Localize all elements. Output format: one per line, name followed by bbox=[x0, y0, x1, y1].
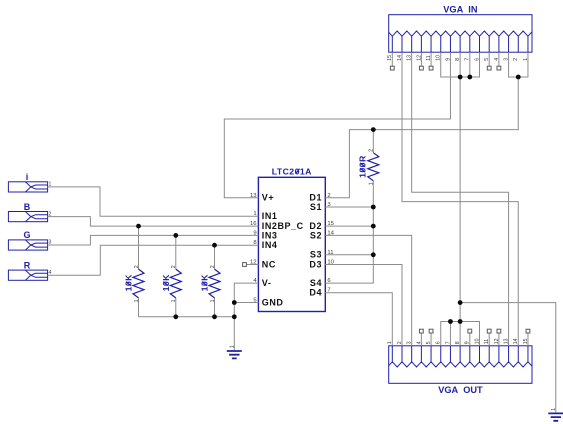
junction R3 top / IN4 line bbox=[212, 243, 217, 248]
VGA OUT pin 5 no-connect square bbox=[429, 329, 433, 333]
resistor R1 10K leads bbox=[138, 226, 140, 317]
svg-text:1: 1 bbox=[369, 182, 375, 185]
svg-text:1: 1 bbox=[171, 299, 177, 302]
svg-text:2: 2 bbox=[210, 265, 216, 268]
svg-text:D4: D4 bbox=[309, 288, 322, 298]
svg-text:IN3: IN3 bbox=[262, 230, 278, 240]
svg-text:R: R bbox=[24, 260, 31, 270]
VGA OUT pin 4 no-connect stub bbox=[420, 333, 422, 346]
svg-text:G: G bbox=[23, 230, 30, 240]
wire VGA OUT pin 8 to ground GND2 bbox=[460, 303, 556, 413]
connector G body bbox=[8, 240, 47, 250]
VGA OUT pin 4 no-connect square bbox=[419, 329, 423, 333]
IC U1 label slashed zero bbox=[296, 169, 300, 174]
wire resistor bottom bus bbox=[139, 316, 235, 318]
VGA OUT pin 9 no-connect square bbox=[468, 329, 472, 333]
svg-text:NC: NC bbox=[262, 259, 276, 269]
wire IC GND stub bbox=[234, 302, 258, 304]
wire VGA IN pin 13 to VGA OUT pin 13 bbox=[412, 52, 509, 346]
wire connector G to IC IN3 bbox=[48, 235, 259, 245]
op IC U1 LTC201A body bbox=[258, 177, 325, 311]
junction 100R bottom / S1 bbox=[371, 205, 376, 210]
wire VGA OUT pin 7 stub bbox=[449, 322, 451, 346]
ground symbol GND2 bbox=[548, 413, 563, 420]
junction S3 / chain bbox=[371, 252, 376, 257]
VGA IN pin 5 no-connect stub bbox=[488, 52, 490, 66]
junction 100R top / D1 line bbox=[371, 127, 376, 132]
VGA IN pin 4 no-connect square bbox=[497, 66, 501, 70]
wire VGA IN pin 14 to VGA OUT pin 14 bbox=[402, 52, 518, 346]
wire chain node S1-D2-S3-S4 bbox=[325, 207, 373, 283]
svg-text:S3: S3 bbox=[310, 250, 322, 260]
svg-text:V+: V+ bbox=[262, 193, 274, 203]
VGA OUT pin 9 no-connect stub bbox=[469, 333, 471, 346]
junction R3 bottom / bus bbox=[212, 314, 217, 319]
svg-text:B: B bbox=[24, 202, 31, 212]
wire VGA OUT ground bus pins 6-10 bbox=[441, 322, 480, 346]
resistor R1 10K body bbox=[133, 269, 144, 298]
wire IC V- to ground bbox=[234, 283, 258, 351]
resistor R4 100R body bbox=[368, 153, 379, 181]
svg-text:S4: S4 bbox=[310, 278, 322, 288]
wire IC D3 to VGA OUT pin 2 bbox=[325, 265, 402, 346]
junction VGA OUT pin 8 / out bus bbox=[458, 319, 463, 324]
wire VGA IN pin 8 to VGA OUT pin 8 bbox=[459, 52, 461, 346]
junction VGA IN pin 2 / bus bbox=[516, 75, 521, 80]
junction VGA OUT pin 7 / out bus bbox=[448, 319, 453, 324]
junction R2 top / IN3 line bbox=[173, 233, 178, 238]
svg-text:1: 1 bbox=[134, 299, 140, 302]
resistor R2 10K body bbox=[170, 269, 181, 298]
VGA IN pin 11 no-connect stub bbox=[430, 52, 432, 66]
connector B body bbox=[8, 212, 47, 222]
svg-text:IN4: IN4 bbox=[262, 240, 278, 250]
junction VGA IN pin 7 / ground bus bbox=[467, 75, 472, 80]
wire connector B to IC IN2BP_C bbox=[48, 217, 259, 227]
wire IC V+ to VGA IN pin 9 bbox=[224, 52, 450, 198]
wire IC S3 stub bbox=[325, 254, 373, 256]
R2 label slashed zero bbox=[163, 282, 168, 286]
R4 label slashed zeros bbox=[360, 168, 365, 172]
svg-text:S1: S1 bbox=[310, 202, 322, 212]
junction R2 bottom / bus bbox=[173, 314, 178, 319]
svg-text:100R: 100R bbox=[358, 155, 368, 178]
VGA IN pin 15 no-connect stub bbox=[391, 52, 393, 66]
svg-text:2: 2 bbox=[513, 58, 519, 61]
svg-text:1: 1 bbox=[230, 345, 236, 348]
svg-text:GND: GND bbox=[262, 297, 284, 307]
connector J2 VGA OUT body bbox=[389, 346, 532, 384]
resistor R3 10K leads bbox=[214, 245, 216, 317]
svg-text:2: 2 bbox=[171, 265, 177, 268]
svg-text:VGA OUT: VGA OUT bbox=[438, 385, 483, 395]
junction V- riser / GND stub bbox=[232, 300, 237, 305]
junction R1 top / IN2BP_C line bbox=[136, 224, 141, 229]
resistor R3 10K body bbox=[209, 269, 220, 298]
svg-text:1: 1 bbox=[551, 408, 557, 411]
svg-text:1: 1 bbox=[210, 299, 216, 302]
connector R body bbox=[8, 270, 47, 280]
VGA IN pin 11 no-connect square bbox=[429, 66, 433, 70]
svg-text:VGA IN: VGA IN bbox=[443, 5, 478, 15]
VGA OUT pin 15 no-connect square bbox=[526, 329, 530, 333]
svg-text:2: 2 bbox=[134, 265, 140, 268]
svg-text:10K: 10K bbox=[124, 274, 134, 292]
VGA OUT pin 11 no-connect square bbox=[487, 329, 491, 333]
VGA OUT pin 12 no-connect square bbox=[497, 329, 501, 333]
wire IC D2 stub bbox=[325, 225, 373, 227]
svg-text:S2: S2 bbox=[310, 230, 322, 240]
VGA IN pin 12 no-connect square bbox=[419, 66, 423, 70]
wire IC S2 to VGA OUT pin 3 bbox=[325, 235, 411, 345]
junction D2 / chain bbox=[371, 224, 376, 229]
R1 label slashed zero bbox=[126, 282, 131, 286]
wire IC S1 to 100R bottom bbox=[325, 206, 373, 208]
VGA IN pin 12 no-connect stub bbox=[420, 52, 422, 66]
svg-text:10K: 10K bbox=[161, 274, 171, 292]
ground symbol GND1 bbox=[227, 351, 242, 358]
wire VGA IN ground bus pins 10-6 bbox=[441, 52, 480, 77]
connector J1 VGA IN body bbox=[389, 15, 532, 53]
VGA OUT pin 11 no-connect stub bbox=[488, 333, 490, 346]
svg-text:2: 2 bbox=[369, 149, 375, 152]
connector i body bbox=[8, 182, 47, 192]
VGA IN pin 4 no-connect stub bbox=[498, 52, 500, 66]
wire IC D4 to VGA OUT pin 1 bbox=[325, 293, 392, 346]
resistor R2 10K leads bbox=[175, 235, 177, 316]
svg-text:IN1: IN1 bbox=[262, 211, 278, 221]
svg-text:i: i bbox=[26, 172, 29, 182]
wire connector i to IC IN1 bbox=[48, 187, 259, 216]
wire IC D1 to VGA IN pin 2 (node through 100R top) bbox=[325, 77, 518, 198]
VGA IN pin 15 no-connect square bbox=[390, 66, 394, 70]
IC U1 pin 12 no-connect square bbox=[243, 263, 247, 267]
junction VGA OUT pin 8 / ground branch bbox=[458, 300, 463, 305]
VGA OUT pin 5 no-connect stub bbox=[430, 333, 432, 346]
wire VGA IN pin 7 stub bbox=[469, 52, 471, 77]
svg-text:10K: 10K bbox=[200, 274, 210, 292]
wire connector R to IC IN4 bbox=[48, 245, 259, 275]
IC U1 pin 12 NC stub bbox=[246, 264, 258, 266]
wire VGA IN bus pins 3-1 bbox=[509, 52, 528, 77]
VGA IN pin 5 no-connect square bbox=[487, 66, 491, 70]
VGA OUT pin 15 no-connect stub bbox=[527, 333, 529, 346]
VGA OUT pin 12 no-connect stub bbox=[498, 333, 500, 346]
svg-text:LTC201A: LTC201A bbox=[272, 166, 312, 176]
junction V- riser / bus bbox=[232, 314, 237, 319]
svg-text:V-: V- bbox=[262, 278, 272, 288]
junction VGA IN pin 8 / ground bus bbox=[458, 75, 463, 80]
svg-text:D3: D3 bbox=[309, 259, 322, 269]
resistor R4 100R leads bbox=[372, 130, 374, 207]
R3 label slashed zero bbox=[202, 282, 207, 286]
